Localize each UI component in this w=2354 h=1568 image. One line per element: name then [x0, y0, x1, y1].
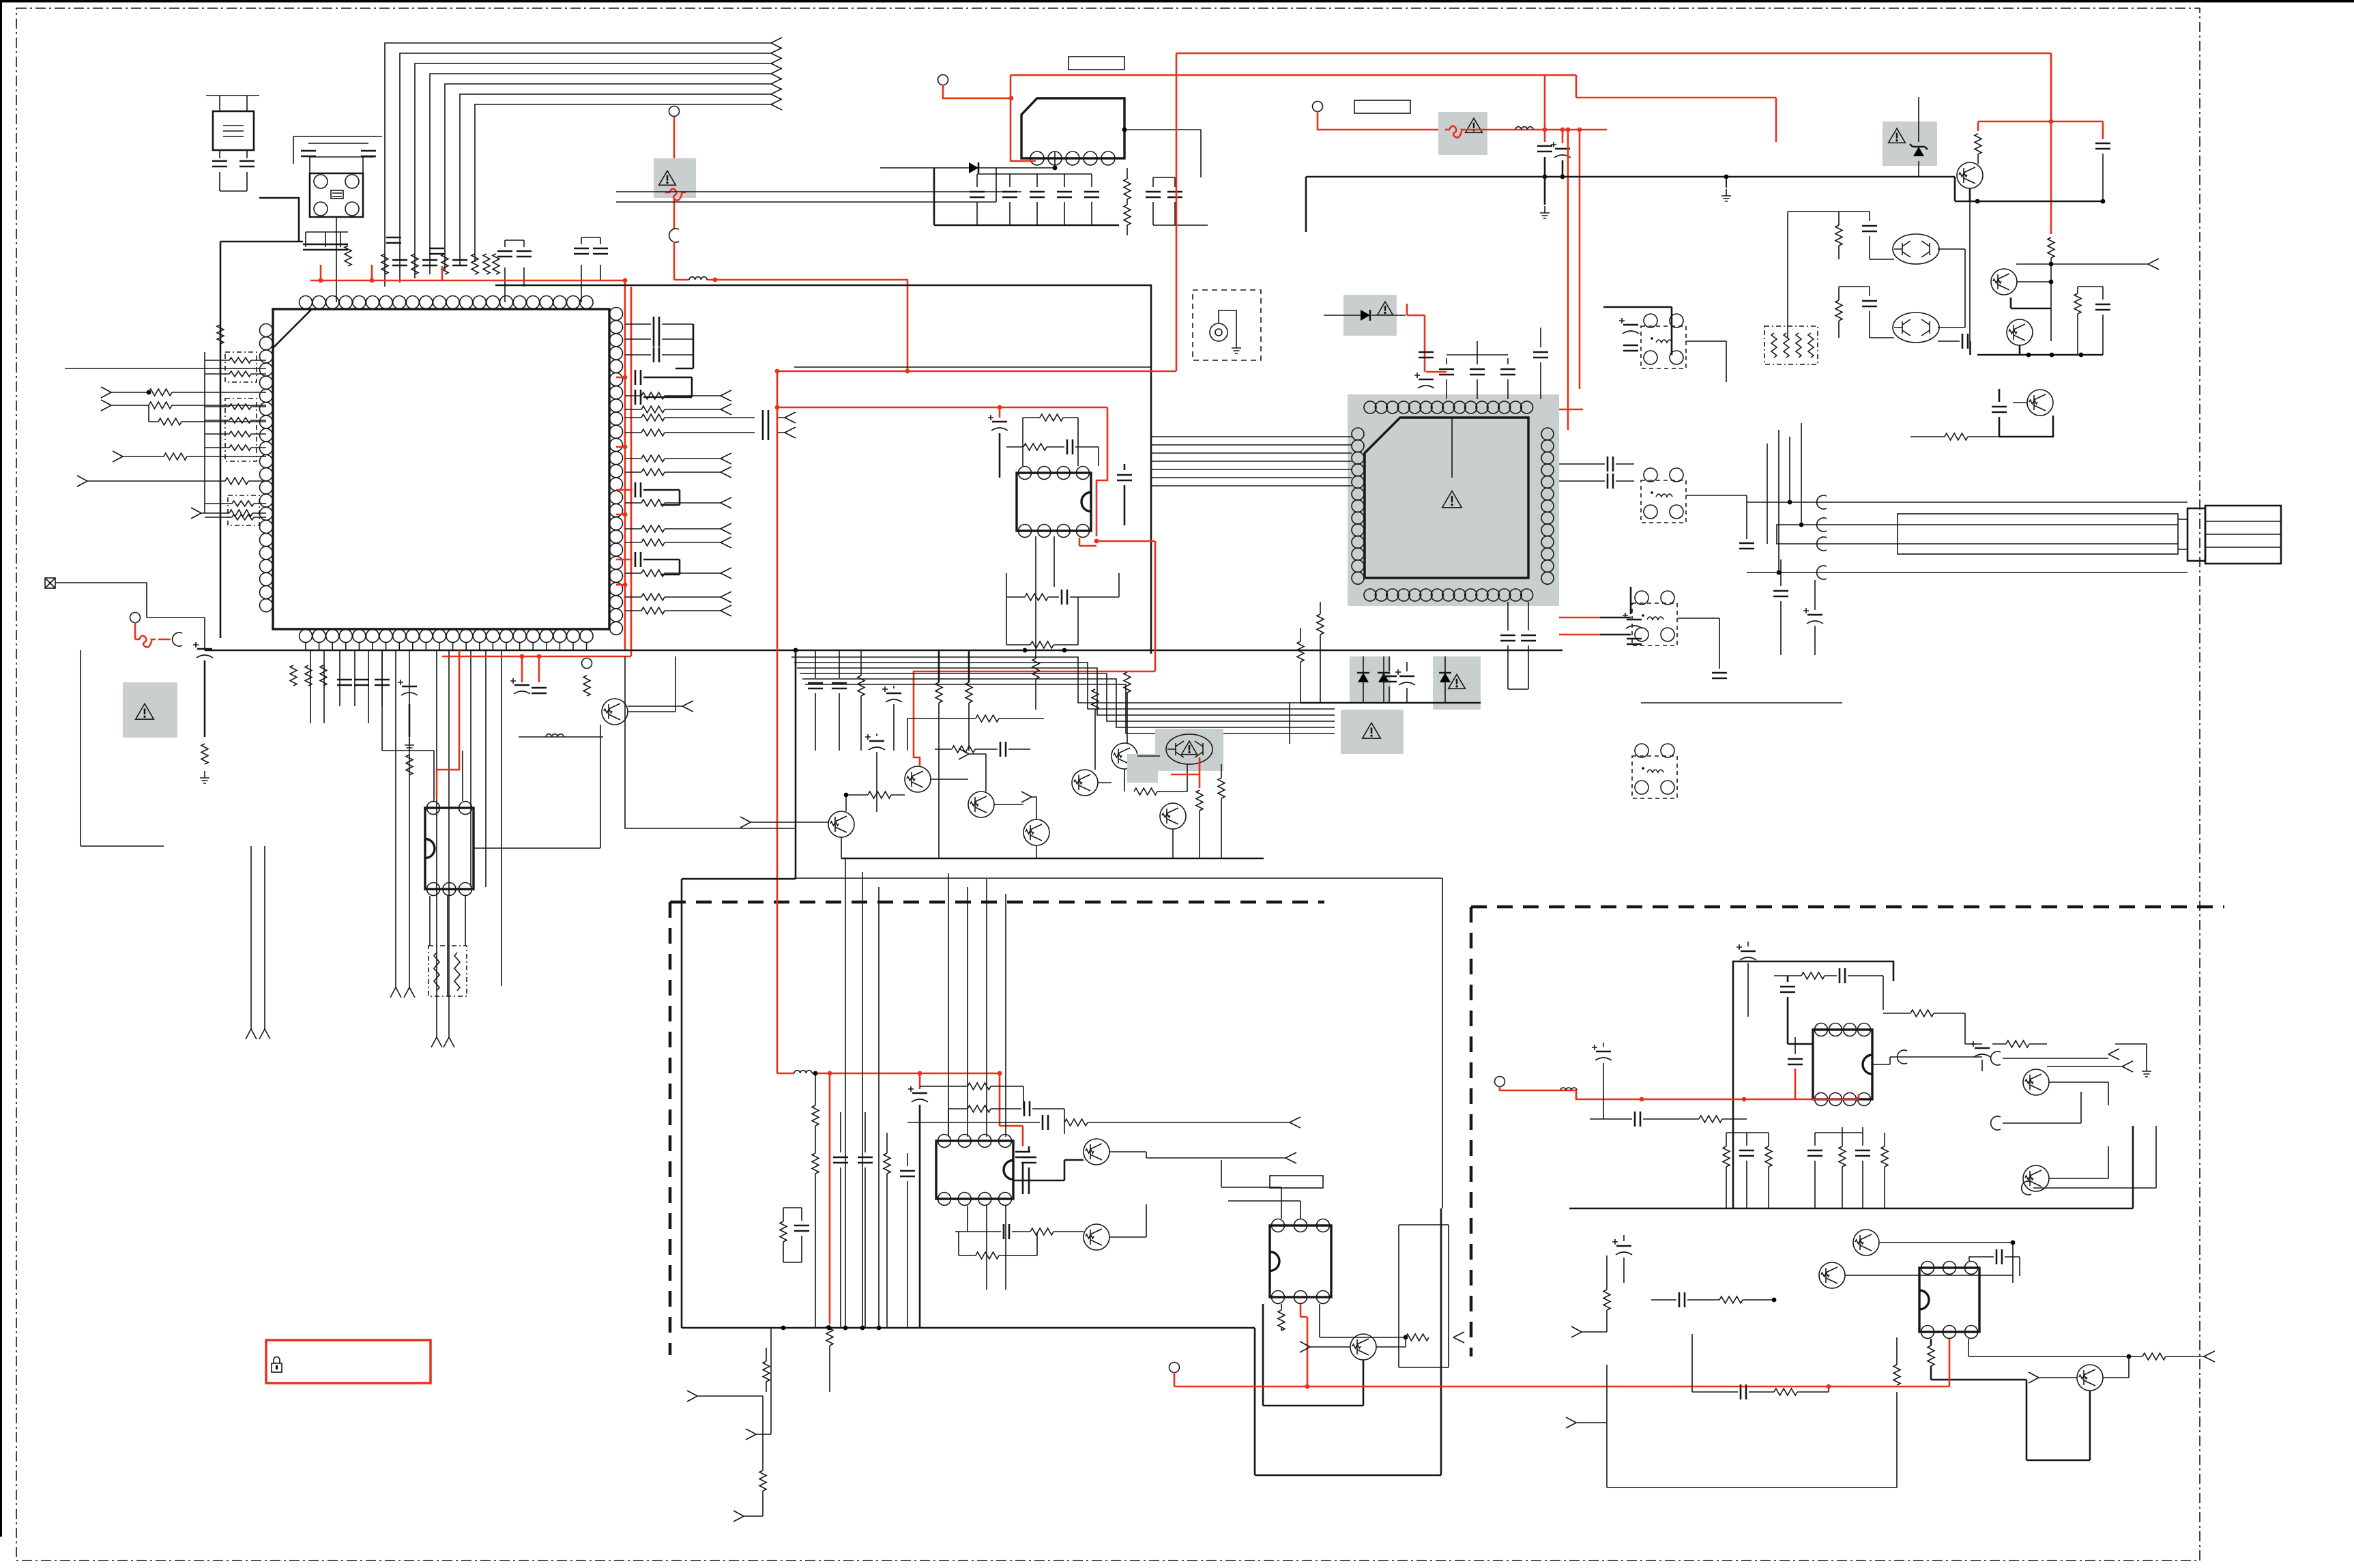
wire (red) 47 — [1576, 1090, 1859, 1099]
wire 69 — [1095, 693, 1127, 770]
junction 51 — [1772, 1298, 1777, 1303]
warning triangle 2 — [136, 703, 154, 719]
signal arrow 28 — [444, 1037, 454, 1047]
junction 40 — [1777, 570, 1782, 575]
transistor Q2 1 — [828, 811, 854, 837]
wire 132 — [920, 1086, 1023, 1109]
wire 154 — [766, 1348, 767, 1392]
power rail (red) 6 — [1176, 53, 2051, 55]
capacitor 20 — [635, 370, 641, 385]
wire 36 — [628, 656, 675, 712]
junction 44 — [998, 1071, 1002, 1076]
capacitor 55 — [1521, 635, 1536, 641]
capacitor 7 — [452, 260, 467, 265]
resistor 64 — [812, 1105, 819, 1126]
wire 117 — [1839, 287, 1870, 338]
capacitor 3 — [301, 151, 316, 156]
wire 63 — [939, 650, 969, 682]
wire 158 — [1788, 976, 1813, 1044]
wire 182 — [1931, 1339, 2026, 1380]
wire (red) 3 — [441, 266, 444, 280]
signal arrow 8 — [721, 390, 731, 401]
wire 162 — [1726, 1132, 1863, 1133]
power rail (red) 11 — [1567, 225, 1569, 430]
wire 37 — [382, 650, 434, 751]
wire (red) 34 — [1426, 371, 1447, 373]
wire 135 — [1028, 1146, 1030, 1194]
wire 151 — [1376, 1337, 1406, 1347]
capacitor 39 — [1117, 475, 1132, 480]
resistor 8 — [641, 392, 665, 399]
capacitor 18 — [654, 332, 659, 347]
resistor 27 — [305, 665, 312, 686]
inductor L2 1 — [546, 734, 564, 737]
pin stub (red) 7 — [1559, 409, 1583, 411]
wire 1 — [220, 172, 247, 191]
capacitor 67 — [1043, 1115, 1048, 1130]
wire 103 — [1977, 154, 1979, 164]
capacitor 27 — [354, 680, 369, 685]
voltage regulator U2 (5-pin) — [1021, 98, 1124, 165]
signal arrow 11 — [721, 467, 731, 478]
wire 86 — [1603, 307, 1672, 355]
resistor 31 — [583, 676, 590, 696]
ground rail 2 — [1977, 354, 2103, 356]
resistor 63 — [976, 1252, 999, 1259]
junction 28 — [1094, 539, 1099, 544]
resistor 24 — [229, 510, 252, 517]
wire 55 — [1006, 446, 1064, 448]
signal wire 21 — [495, 285, 1151, 654]
capacitor 30 — [970, 192, 985, 197]
resistor 56 — [1835, 300, 1842, 321]
wire 181 — [1969, 1257, 2020, 1276]
wire 28 — [55, 583, 147, 618]
wire (red) 2 — [371, 265, 373, 280]
resistor 67 — [780, 1221, 787, 1242]
warning triangle 5 — [1442, 491, 1462, 508]
wire 20 — [205, 406, 266, 407]
terminal (circle) 6 — [1169, 1363, 1180, 1373]
capacitor 53 — [1382, 676, 1397, 682]
bus wire 7 — [475, 104, 771, 262]
locked note box (red) — [266, 1340, 431, 1383]
wire 95 — [1289, 703, 1290, 744]
junction 45 — [813, 1071, 818, 1076]
signal wire 18 — [251, 846, 265, 1029]
resistor 5 — [471, 254, 478, 274]
capacitor 17 — [654, 317, 659, 332]
capacitor (electrolytic) 4 — [1551, 142, 1571, 158]
signal arrow 40 — [746, 1429, 756, 1440]
wire (red) 1 — [320, 265, 322, 280]
capacitor 60 — [2095, 304, 2110, 310]
pin stub (red) 1 — [616, 377, 625, 379]
signal arrow 27 — [431, 1037, 442, 1047]
wire 76 — [907, 718, 1044, 751]
signal wire down 2 — [323, 650, 325, 723]
pin stub (red) 3 — [616, 514, 625, 516]
wire 57 — [1124, 464, 1126, 525]
capacitor 64 — [1992, 407, 2007, 412]
power rail (red) 7 — [1176, 53, 1178, 371]
junction 52 — [2011, 1240, 2016, 1245]
resistor 47 — [1196, 790, 1203, 811]
pin stub (red) 6 — [616, 559, 633, 561]
junction 22 — [1560, 128, 1565, 132]
wire 124 — [1789, 437, 1790, 502]
wire (red) 23 — [999, 407, 1001, 418]
signal arrow 32 — [740, 817, 751, 828]
wire (red) 46 — [1500, 1086, 1515, 1090]
signal wire down 11 — [470, 650, 471, 887]
resistor 79 — [2006, 1041, 2029, 1047]
wire 72 — [1199, 811, 1200, 858]
resistor network (dashed) — [1764, 326, 1818, 364]
wire 8 — [662, 323, 693, 325]
capacitor 70 — [833, 1157, 848, 1163]
wire (red) 9 — [521, 656, 523, 682]
capacitor 40 — [1062, 590, 1067, 605]
resistor 39 — [858, 676, 864, 696]
signal wire 6 — [625, 528, 721, 529]
wire 90 — [1332, 721, 1335, 722]
wire 33 — [430, 896, 465, 996]
transistor Q12 1 — [2007, 319, 2033, 345]
warning triangle 4 — [1182, 741, 1197, 754]
signal arrow 31 — [682, 701, 693, 712]
signal arrow 15 — [721, 568, 731, 579]
signal wire 5 — [625, 502, 721, 504]
transistor Q11 1 — [1991, 269, 2017, 295]
wire 13 — [675, 324, 693, 368]
resistor 28 — [320, 665, 327, 686]
bus wire 21 — [1151, 436, 1352, 437]
transformer T2 1 — [1641, 468, 1686, 523]
capacitor 29 — [532, 688, 547, 693]
junction 25 — [1543, 175, 1547, 179]
wire 47 — [1127, 168, 1128, 235]
wire 185 — [2039, 1377, 2077, 1378]
wire 126 — [1801, 423, 1802, 525]
wire (red) 4 — [673, 116, 675, 158]
signal arrow 42 — [733, 1511, 744, 1522]
signal arrow 9 — [721, 404, 731, 415]
resistor 43 — [1092, 689, 1099, 710]
pin stub (red) 2 — [616, 446, 625, 448]
wire 56 — [1075, 447, 1099, 466]
power rail (red) 10 — [1011, 74, 1576, 76]
resistor 50 — [1317, 614, 1324, 635]
wire 53 — [999, 433, 1001, 478]
wire 176 — [2132, 1126, 2134, 1208]
resonator X2 — [206, 96, 259, 158]
wire 51 — [1544, 177, 1546, 205]
transistor Q10 1 — [1957, 162, 1983, 188]
cable shield (outer) — [1898, 514, 2178, 554]
signal wire 11 — [625, 417, 785, 418]
ground symbol — [1540, 206, 1550, 218]
resistor network (dashed) 2 — [225, 398, 257, 461]
capacitor 37 — [1537, 146, 1552, 151]
warning highlight 9 — [1341, 710, 1404, 754]
wire (red) 26 — [1096, 541, 1155, 671]
wire 91 — [1332, 727, 1335, 728]
bus wire 14 — [802, 679, 1332, 727]
resistor 9 — [641, 406, 665, 413]
resistor 17 — [641, 607, 665, 614]
wire 68 — [1032, 797, 1036, 819]
junction 15 — [537, 654, 542, 659]
signal wire 9 — [625, 596, 721, 598]
wire 137 — [1013, 1160, 1084, 1180]
signal wire down 3 — [339, 650, 340, 706]
wire 139 — [955, 1231, 1084, 1232]
wire 61 — [1054, 536, 1055, 587]
resistor 82 — [1928, 1346, 1934, 1366]
wire (red) 44 — [1174, 1372, 1176, 1386]
wire 32 — [434, 751, 463, 801]
resistor 46 — [1218, 778, 1225, 798]
wire 149 — [1320, 1304, 1406, 1337]
external terminal (boxed X) — [45, 578, 55, 588]
wire 160 — [1794, 1037, 1796, 1054]
power rail (red) 4 — [674, 279, 908, 281]
wire 121 — [1999, 389, 2054, 437]
signal wire down 13 — [501, 650, 502, 986]
signal arrow 46 — [2204, 1351, 2215, 1362]
wire (red) 41 — [829, 1073, 831, 1324]
wire (red) 42 — [919, 1073, 921, 1089]
wire 19 — [205, 373, 266, 375]
capacitor 57 — [1739, 543, 1754, 549]
wire 184 — [2129, 1356, 2204, 1357]
capacitor 61 — [1962, 334, 1968, 349]
coupling arc 6 — [1817, 537, 1827, 551]
capacitor 42 — [832, 683, 847, 688]
transformer T3 1 — [1632, 591, 1677, 645]
wire (red) 12 — [158, 639, 171, 641]
junction 4 — [713, 278, 718, 282]
wire 153 — [756, 1328, 771, 1434]
junction 16 — [1009, 96, 1014, 101]
resistor 51 — [1297, 641, 1304, 662]
crystal X1 circuit box — [310, 173, 363, 217]
wire 157 — [744, 1515, 763, 1517]
wire 88 — [1332, 708, 1335, 710]
wire (red) 24 — [777, 407, 1107, 409]
junction 33 — [2101, 199, 2106, 204]
junction 6 — [623, 375, 628, 380]
capacitor (electrolytic) 14 — [1737, 944, 1756, 960]
power rail (red) 12 — [1579, 225, 1581, 389]
resistor 69 — [1406, 1334, 1429, 1341]
capacitor 4 — [361, 151, 376, 156]
wire 75 — [876, 734, 877, 812]
signal wire 15 — [123, 456, 266, 457]
wire 94 — [1300, 602, 1320, 703]
wire 27 — [409, 704, 411, 737]
diode (zener) 3 — [1439, 656, 1451, 703]
signal arrow 26 — [404, 987, 415, 998]
wire 41 — [976, 174, 978, 225]
resistor 2 — [381, 254, 388, 274]
wire 4 — [505, 240, 524, 302]
signal wire 16 — [201, 512, 266, 514]
signal arrow 7 — [771, 99, 782, 110]
wire (red) 18 — [1011, 99, 1036, 161]
capacitor (electrolytic) 12 — [1803, 608, 1823, 624]
capacitor 65 — [1015, 1152, 1030, 1157]
capacitor 33 — [1057, 192, 1072, 197]
signal arrow 19 — [785, 427, 796, 438]
capacitor 76 — [1739, 1150, 1754, 1156]
warning highlight 3 — [1438, 112, 1487, 155]
junction 1 — [319, 278, 323, 283]
resistor network (dashed) 1 — [225, 352, 257, 382]
transistor Q19 1 — [2023, 1069, 2049, 1095]
resistor 48 — [976, 715, 999, 722]
wire 64 — [939, 703, 969, 858]
diode (zener) 2 — [1378, 656, 1390, 703]
capacitor 10 — [333, 244, 348, 250]
signal arrow 37 — [1285, 1152, 1296, 1163]
resistor 75 — [1881, 1146, 1888, 1167]
wire (red) 13 — [943, 85, 1011, 98]
signal wire 10 — [625, 610, 721, 611]
warning highlight 6 — [1343, 295, 1397, 336]
resistor 14 — [641, 539, 665, 546]
capacitor 9 — [318, 244, 333, 250]
power rail 2 — [1955, 201, 2103, 203]
signal arrow 24 — [77, 476, 87, 487]
junction 55 — [827, 1326, 832, 1331]
wire (red) 19 — [1544, 75, 1546, 130]
junction 41 — [1799, 523, 1804, 527]
transistor Q7 1 — [1111, 743, 1137, 769]
resistor 85 — [1893, 1365, 1900, 1385]
power rail 1 — [1306, 176, 1955, 178]
bus wire 11 — [794, 663, 1332, 709]
junction 43 — [918, 1071, 922, 1076]
wire 50 — [1562, 160, 1564, 177]
signal arrow 29 — [246, 1029, 257, 1039]
capacitor (electrolytic) 2 — [510, 678, 530, 694]
diode D2 1 — [1361, 310, 1370, 321]
cable wire 1 — [1747, 502, 2188, 503]
junction 8 — [623, 512, 628, 517]
IC U6 (DIP-8) 1 — [936, 1135, 1013, 1206]
wire 17 — [149, 405, 266, 422]
wire (red) 29 — [1171, 757, 1200, 774]
resistor 71 — [759, 1470, 766, 1491]
junction 35 — [2049, 280, 2054, 285]
wire (red) 11 — [134, 622, 136, 639]
capacitor (electrolytic) 9 — [1619, 318, 1639, 334]
diode D1 1 — [969, 162, 978, 173]
signal arrow 21 — [101, 400, 111, 411]
bus wire 5 — [445, 84, 771, 270]
resistor 38 — [1032, 658, 1039, 679]
capacitor 52 — [1533, 352, 1548, 358]
wire 97 — [1686, 341, 1726, 382]
signal wire down 7 — [395, 650, 396, 987]
wire 2 — [293, 136, 382, 164]
wire 169 — [2049, 1082, 2108, 1178]
capacitor 72 — [900, 1171, 915, 1176]
warning highlight 4 — [1155, 729, 1223, 771]
wire 79 — [1451, 418, 1453, 478]
transistor Q1 1 — [602, 699, 628, 725]
resistor 6 — [483, 254, 490, 274]
junction 37 — [2050, 353, 2054, 358]
resistor 25 — [225, 478, 248, 484]
junction 11 — [794, 648, 798, 653]
transistor Q23 1 — [2077, 1365, 2103, 1391]
resistor 10 — [641, 455, 665, 462]
coupling arc 9 — [2022, 1181, 2031, 1195]
wire 152 — [1263, 1304, 1363, 1406]
capacitor 62 — [1862, 226, 1877, 231]
transistor Q6 1 — [1072, 770, 1098, 796]
junction 34 — [2049, 262, 2054, 267]
wire 96 — [1508, 602, 1528, 689]
capacitor 81 — [1679, 1292, 1685, 1307]
resistor 62 — [1030, 1228, 1054, 1235]
signal wire 13 — [111, 392, 266, 393]
signal arrow 48 — [1566, 1417, 1576, 1428]
wire 23 — [205, 447, 266, 448]
wire 140 — [959, 1232, 1037, 1255]
coupling arc 3 — [1817, 495, 1827, 509]
signal wire down 6 — [381, 650, 383, 706]
bus wire 6 — [460, 94, 771, 266]
signal arrow 1 — [771, 38, 782, 48]
resistor 22 — [158, 418, 181, 425]
label box — [1270, 1176, 1323, 1188]
capacitor 59 — [2095, 143, 2110, 149]
junction 19 — [775, 369, 780, 374]
capacitor 49 — [1439, 369, 1454, 375]
inductor L3 1 — [1515, 127, 1533, 130]
wire 12 — [662, 354, 693, 355]
fuse F3 (red) 1 — [1445, 126, 1466, 138]
wire 180 — [1845, 1243, 2013, 1283]
coupling arc 7 — [1991, 1051, 2001, 1065]
junction 30 — [2049, 119, 2054, 124]
coupling arc 4 — [1817, 566, 1827, 579]
transistor Q22 1 — [1819, 1262, 1845, 1288]
resistor 55 — [1835, 225, 1842, 246]
capacitor (electrolytic) 1 — [398, 680, 418, 695]
capacitor 31 — [1002, 192, 1017, 197]
capacitor 14 — [517, 251, 532, 257]
transistor Q17 1 — [1084, 1224, 1109, 1250]
signal wire 8 — [625, 572, 721, 574]
wire 114 — [1938, 341, 1971, 355]
section divider (bottom-right block) left dashed — [1470, 907, 1473, 1356]
capacitor 5 — [392, 260, 407, 265]
resistor 72 — [1723, 1146, 1730, 1167]
resistor 32 — [1124, 179, 1131, 199]
wire 101 — [1641, 702, 1842, 703]
wire 172 — [2003, 1058, 2072, 1059]
signal wire 4 — [625, 471, 721, 473]
signal wire 2 — [625, 409, 721, 410]
transistor Q18 1 — [1350, 1334, 1376, 1360]
diode (zener) 1 — [1357, 656, 1369, 703]
wire 170 — [2115, 1044, 2147, 1064]
